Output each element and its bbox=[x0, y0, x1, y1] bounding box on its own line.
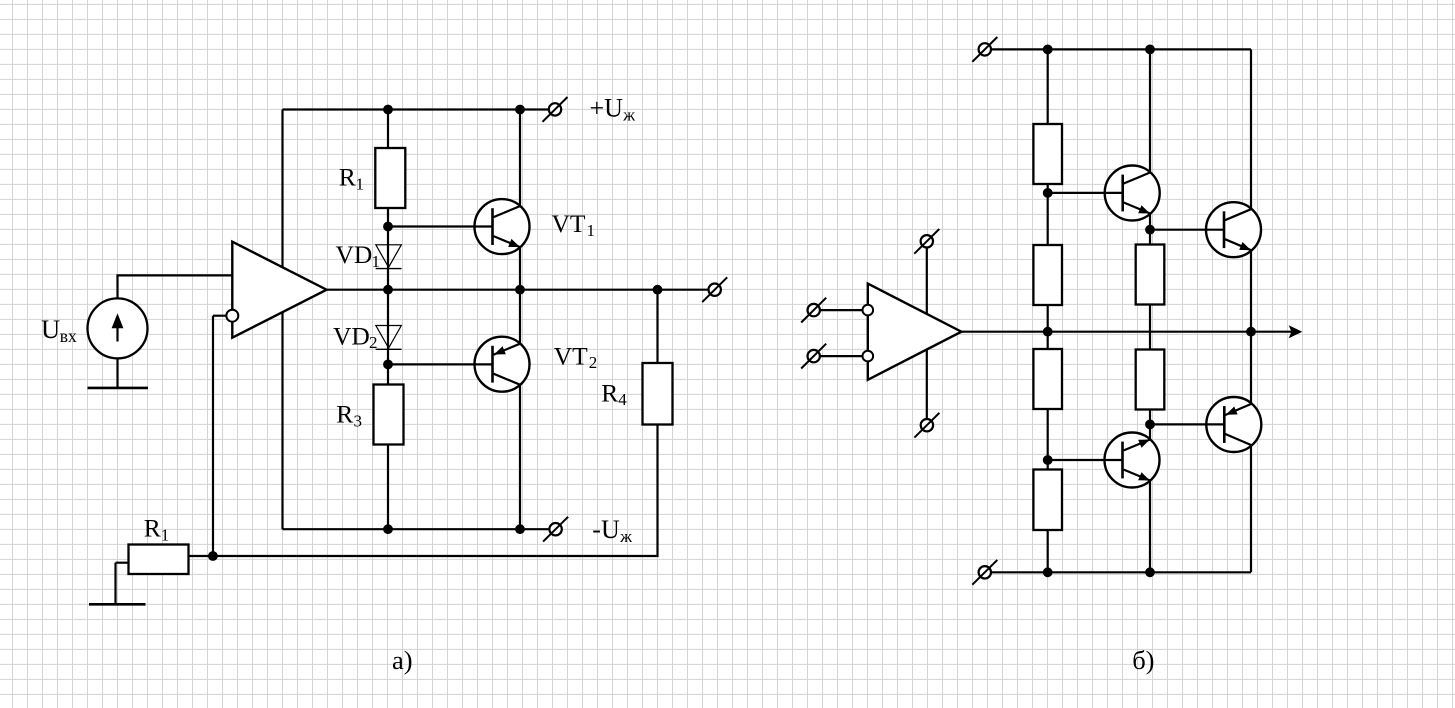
svg-text:VD: VD bbox=[336, 240, 373, 269]
svg-text:U: U bbox=[41, 314, 60, 344]
svg-text:1: 1 bbox=[356, 175, 365, 194]
svg-text:VT: VT bbox=[554, 341, 588, 370]
svg-text:4: 4 bbox=[618, 390, 627, 409]
svg-text:ж: ж bbox=[619, 527, 632, 546]
svg-text:б): б) bbox=[1132, 645, 1154, 675]
svg-text:1: 1 bbox=[587, 221, 596, 240]
svg-text:R: R bbox=[601, 378, 618, 407]
svg-text:VT: VT bbox=[552, 209, 586, 238]
svg-text:вх: вх bbox=[60, 326, 77, 346]
svg-text:1: 1 bbox=[161, 525, 170, 544]
svg-text:+U: +U bbox=[590, 93, 624, 122]
svg-text:VD: VD bbox=[333, 322, 370, 351]
svg-text:2: 2 bbox=[369, 333, 378, 352]
svg-text:R: R bbox=[336, 400, 353, 429]
svg-text:а): а) bbox=[392, 645, 413, 675]
svg-text:ж: ж bbox=[622, 105, 635, 124]
svg-text:R: R bbox=[339, 163, 356, 192]
svg-text:2: 2 bbox=[589, 353, 598, 372]
svg-text:-U: -U bbox=[592, 515, 620, 544]
svg-text:1: 1 bbox=[372, 252, 381, 271]
svg-text:R: R bbox=[144, 514, 161, 543]
svg-text:3: 3 bbox=[354, 411, 363, 430]
